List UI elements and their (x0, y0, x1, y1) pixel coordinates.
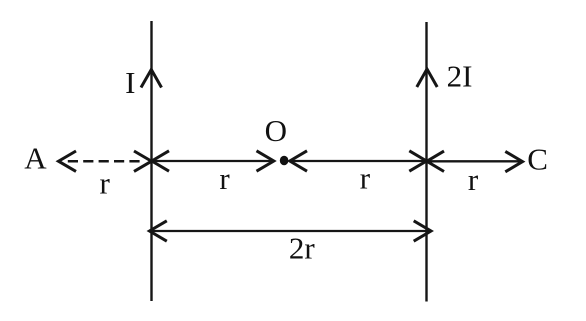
wire W2 (right vertical conductor, current 2I) (425, 22, 427, 302)
current arrow on wire W2 (417, 69, 437, 87)
svg-text:C: C (527, 141, 548, 176)
svg-text:I: I (125, 65, 135, 100)
arrowhead at W1 from A side (points right) (134, 151, 152, 171)
2r dimension line between wires (150, 230, 430, 232)
dashed distance line A to W1 (68, 160, 140, 163)
wire W1 (left vertical conductor, current I) (150, 21, 152, 301)
arrowhead at A (points left) (59, 151, 77, 171)
svg-text:r: r (219, 161, 230, 196)
svg-text:2r: 2r (289, 231, 316, 266)
arrowhead at W2 toward left (C side) (427, 151, 444, 171)
arrowhead at W2 from O side (points right) (409, 151, 426, 171)
arrowhead at O from right (points left) (290, 151, 307, 171)
current arrow on wire W1 (141, 70, 162, 88)
2r arrowhead right (414, 221, 431, 241)
svg-text:2I: 2I (447, 59, 473, 94)
svg-text:A: A (24, 141, 47, 176)
node O dot (280, 156, 289, 166)
arrowhead at O from left (points right) (257, 151, 274, 171)
svg-text:r: r (100, 166, 111, 201)
arrowhead at C (points right) (505, 151, 522, 171)
2r arrowhead left (150, 221, 167, 241)
svg-text:r: r (360, 161, 371, 196)
svg-text:r: r (468, 162, 479, 197)
svg-text:O: O (265, 113, 287, 148)
distance line W1 to O (152, 160, 275, 162)
arrowhead at W1 toward left (152, 151, 169, 171)
distance line O to W2 (290, 160, 427, 162)
distance line W2 to C (427, 160, 522, 162)
